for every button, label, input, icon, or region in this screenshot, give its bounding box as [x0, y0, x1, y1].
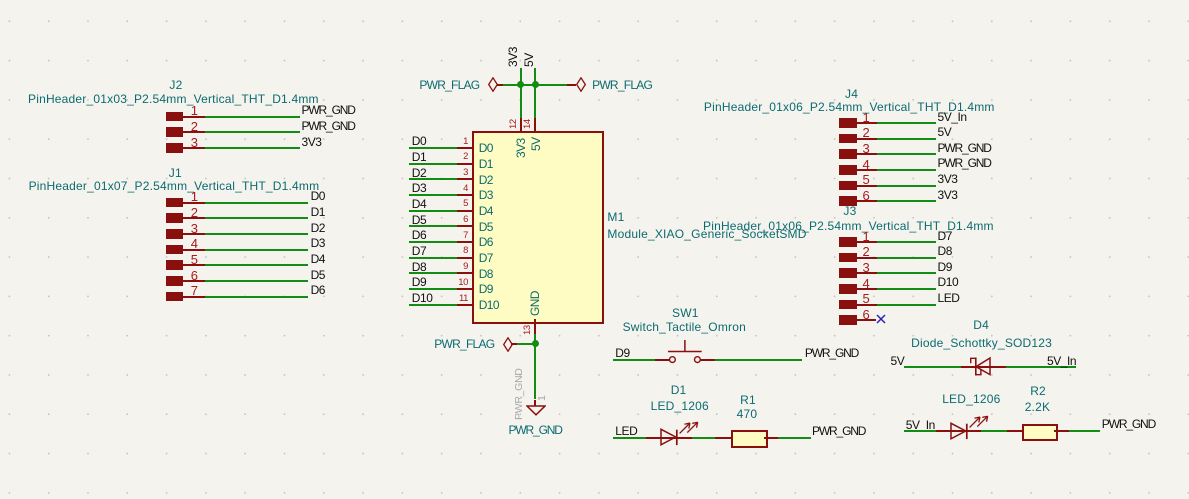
J4 pin 5 line: [857, 185, 878, 187]
SW1 value Switch_Tactile_Omron: [623, 321, 746, 333]
net label PWR_GND (J4 pin 3): [938, 142, 991, 154]
M1 pin 8 wire (net D7): [409, 257, 457, 259]
net label D7 (M1 pin 8): [412, 245, 426, 257]
M1 pin name D8: [479, 268, 493, 280]
net label D6 (M1 pin 7): [412, 229, 426, 241]
J3 pad 2: [839, 253, 856, 263]
module M1 body: [472, 131, 604, 324]
net label D1 (J1 pin 2): [311, 206, 325, 218]
power flag PF2 text: [592, 79, 652, 91]
M1 pin 10 line: [457, 288, 473, 290]
J1 pin 5 wire: [205, 264, 309, 266]
J1 pad 3: [166, 229, 183, 239]
M1 pin 7 wire (net D6): [409, 241, 457, 243]
J4 pad 4: [839, 165, 856, 175]
J1 pin 1 line: [183, 202, 205, 204]
J2 pin 1 wire: [205, 116, 300, 118]
net label D5 (M1 pin 6): [412, 214, 426, 226]
net label D5 (J1 pin 6): [311, 269, 325, 281]
M1 pin number 9: [463, 262, 468, 272]
M1 pin name D9: [479, 283, 493, 295]
M1 pin 1 wire (net D0): [409, 147, 457, 149]
J1 pad 7: [166, 292, 183, 302]
wire D2 internal: [951, 430, 981, 432]
net label D3 (J1 pin 4): [311, 237, 325, 249]
J1 reference designator: [169, 167, 182, 179]
J3 pin 3 line: [857, 272, 878, 274]
J4 pin 2 line: [857, 138, 878, 140]
net label PWR_GND (R1 right): [812, 425, 865, 437]
wire LED to D1: [613, 437, 646, 439]
J1 pin 4 line: [183, 249, 205, 251]
J3 pin 4 line: [857, 288, 878, 290]
J2 pin number 3: [191, 136, 198, 149]
J3 pin number 6: [863, 308, 870, 321]
J1 pin number 1: [191, 190, 198, 203]
J2 pin 1 line: [183, 116, 205, 118]
net label D7 (J3 pin 1): [938, 230, 952, 242]
net label PWR_GND (J2 pin 1): [302, 104, 355, 116]
M1 pin name 3V3 (vertical): [515, 139, 527, 159]
J2 pin number 2: [191, 120, 198, 133]
net label D1 (M1 pin 2): [412, 151, 426, 163]
J1 pin 5 line: [183, 264, 205, 266]
resistor R2 body: [1022, 424, 1059, 442]
J4 pad 1: [839, 118, 856, 128]
SW1 pin 2 line: [700, 359, 715, 361]
net label PWR_GND (J4 pin 4): [938, 157, 991, 169]
net label PWR_GND (SW1 right): [805, 347, 858, 359]
J3 value PinHeader_01x06: [703, 220, 994, 232]
J3 pin 3 wire: [877, 272, 936, 274]
net label D9 (SW1 left): [615, 347, 629, 359]
M1 pin 4 line: [457, 194, 473, 196]
M1 pin 14 line: [534, 118, 536, 132]
J3 pad 1: [839, 237, 856, 247]
J3 pin number 4: [863, 277, 870, 290]
M1 pin 2 line: [457, 163, 473, 165]
J3 pad 3: [839, 268, 856, 278]
wire 5V junction to PF2: [535, 84, 567, 86]
wire R2 to PWR_GND: [1069, 430, 1101, 432]
J1 pin number 6: [191, 269, 198, 282]
net label D10 (M1 pin 11): [412, 292, 433, 304]
net label 5V (D4 left): [891, 355, 905, 367]
R1 pin 2 line: [764, 437, 778, 439]
M1 pin 9 wire (net D8): [409, 272, 457, 274]
J4 pin 1 line: [857, 122, 878, 124]
J3 pin number 3: [863, 261, 870, 274]
M1 pin number 2: [463, 152, 468, 162]
junction at 3V3: [517, 81, 524, 88]
J2 pin number 1: [191, 104, 198, 117]
net label D10 (J3 pin 4): [938, 276, 959, 288]
wire pin13 to junction: [534, 334, 536, 344]
net label D0 (J1 pin 1): [311, 190, 325, 202]
M1 pin number 14: [523, 120, 533, 130]
net label D4 (J1 pin 5): [311, 253, 325, 265]
J2 pad 2: [166, 127, 183, 137]
J4 pin number 5: [863, 173, 870, 186]
diode D4 symbol: [967, 356, 993, 378]
net label D6 (J1 pin 7): [311, 284, 325, 296]
J1 pin 1 wire: [205, 202, 309, 204]
net label D3 (M1 pin 4): [412, 182, 426, 194]
M1 pin name D4: [479, 205, 493, 217]
M1 pin number 4: [463, 184, 468, 194]
J4 pad 3: [839, 149, 856, 159]
net label D9 (M1 pin 10): [412, 276, 426, 288]
resistor R1 value 470: [737, 408, 758, 420]
resistor R2 reference: [1030, 385, 1046, 397]
J2 pad 1: [166, 112, 183, 122]
M1 pin number 6: [463, 215, 468, 225]
M1 pin name D1: [479, 158, 493, 170]
power flag PF1 text: [419, 79, 479, 91]
M1 pin name GND (vertical): [529, 292, 541, 317]
M1 value Module_XIAO_Generic_SocketSMD: [607, 228, 806, 240]
J4 pin number 1: [863, 111, 870, 124]
J1 pin number 2: [191, 206, 198, 219]
LED D2 symbol: [949, 413, 991, 441]
net label D0 (M1 pin 1): [412, 135, 426, 147]
D2 pin 1 line: [936, 430, 951, 432]
J4 pin 4 line: [857, 169, 878, 171]
wire 3V3 vertical: [520, 68, 522, 118]
LED D1 symbol: [659, 419, 701, 447]
M1 pin 11 wire (net D10): [409, 304, 457, 306]
J1 pad 6: [166, 276, 183, 286]
J1 pin 2 wire: [205, 217, 309, 219]
R2 pin 2 line: [1054, 430, 1069, 432]
wire 5V_In to D2: [904, 430, 936, 432]
net label PWR_GND (J2 pin 2): [302, 120, 355, 132]
M1 pin 3 line: [457, 178, 473, 180]
net label D2 (J1 pin 3): [311, 222, 325, 234]
M1 pin number 12: [509, 120, 519, 130]
ground symbol PWR_GND triangle: [526, 405, 546, 416]
J4 pin 1 wire: [877, 122, 936, 124]
J1 value PinHeader_01x07: [29, 180, 320, 192]
M1 pin number 1: [463, 137, 468, 147]
M1 pin name D10: [479, 299, 499, 311]
D4 value Diode_Schottky_SOD123: [911, 337, 1052, 349]
SW1 pin 1 line: [655, 359, 669, 361]
J4 value PinHeader_01x06: [704, 101, 995, 113]
wire D4 internal: [976, 366, 1006, 368]
M1 pin name D5: [479, 221, 493, 233]
M1 pin 2 wire (net D1): [409, 163, 457, 165]
power symbol PWR_GND text: [509, 424, 562, 436]
M1 pin 5 line: [457, 210, 473, 212]
J3 pad 4: [839, 284, 856, 294]
J4 pad 6: [839, 196, 856, 206]
J4 pin number 3: [863, 142, 870, 155]
J4 pin 6 wire: [877, 200, 936, 202]
wire D1 to R1: [692, 437, 716, 439]
J2 value PinHeader_01x03: [28, 93, 319, 105]
J1 pin 3 line: [183, 233, 205, 235]
M1 pin number 8: [463, 246, 468, 256]
wire R1 to PWR_GND: [778, 437, 811, 439]
diode D4 reference: [973, 319, 989, 331]
J1 pad 4: [166, 245, 183, 255]
J3 pad 5: [839, 300, 856, 310]
J1 pin 6 wire: [205, 280, 309, 282]
J4 pin number 6: [863, 189, 870, 202]
M1 pin 12 line: [520, 118, 522, 132]
J1 pad 1: [166, 198, 183, 208]
net label 3V3 (J4 pin 5): [938, 173, 958, 185]
junction at GND: [532, 340, 539, 347]
net label 5V (J4 pin 2): [938, 126, 952, 138]
power flag PF3 text: [434, 338, 494, 350]
net label D9 (J3 pin 3): [938, 261, 952, 273]
M1 pin 7 line: [457, 241, 473, 243]
J4 pin number 2: [863, 126, 870, 139]
J4 pad 2: [839, 134, 856, 144]
power flag PF2 diamond: [576, 77, 586, 92]
M1 pin name D7: [479, 252, 493, 264]
J4 pin 6 line: [857, 200, 878, 202]
R1 pin 1 line: [715, 437, 730, 439]
wire 5V to D4: [904, 366, 961, 368]
J1 pin number 3: [191, 222, 198, 235]
J3 pin 1 line: [857, 241, 878, 243]
J3 reference designator: [843, 205, 856, 217]
J1 pad 2: [166, 213, 183, 223]
J1 pad 5: [166, 260, 183, 270]
J1 pin 4 wire: [205, 249, 309, 251]
J1 pin number 5: [191, 253, 198, 266]
wire junction to PWR_GND symbol: [534, 344, 536, 400]
junction at 5V: [532, 81, 539, 88]
J2 pin 3 line: [183, 147, 205, 149]
wire SW1 to PWR_GND: [715, 359, 802, 361]
wire D9 to SW1: [613, 359, 655, 361]
PF2 pin line: [567, 84, 576, 86]
J4 pin 3 wire: [877, 153, 936, 155]
M1 pin name 5V (vertical): [530, 138, 542, 151]
J4 pad 5: [839, 181, 856, 191]
wire 5V vertical: [534, 68, 536, 118]
M1 pin 1 line: [457, 147, 473, 149]
wire D4 to 5V_In: [1006, 366, 1076, 368]
M1 pin 10 wire (net D9): [409, 288, 457, 290]
M1 pin 13 line: [534, 319, 536, 333]
J1 pin number 4: [191, 237, 198, 250]
wire D2 to R2: [981, 430, 1007, 432]
M1 pin number 13: [523, 325, 533, 335]
net label 3V3 (J2 pin 3): [302, 136, 322, 148]
J1 pin 3 wire: [205, 233, 309, 235]
wire 3V3 junction to 5V junction: [520, 84, 535, 86]
power flag PF1 diamond: [488, 77, 498, 92]
M1 pin 5 wire (net D4): [409, 210, 457, 212]
net label 3V3 (J4 pin 6): [938, 189, 958, 201]
M1 pin 8 line: [457, 257, 473, 259]
net label 5V (vertical): [523, 53, 535, 67]
PF1 pin line: [497, 84, 504, 86]
M1 pin number 10: [458, 278, 468, 288]
resistor R1 reference: [740, 394, 756, 406]
J3 pin 5 line: [857, 304, 878, 306]
net label LED (D1 left): [615, 425, 637, 437]
J3 pad 6: [839, 315, 856, 325]
J3 pin 6 line: [857, 319, 877, 321]
J1 pin 7 wire: [205, 296, 309, 298]
R2 pin 1 line: [1007, 430, 1022, 432]
J2 pad 3: [166, 143, 183, 153]
net label LED (J3 pin 5): [938, 292, 960, 304]
J4 pin 5 wire: [877, 185, 936, 187]
J4 pin number 4: [863, 158, 870, 171]
M1 pin number 3: [463, 168, 468, 178]
M1 pin 6 wire (net D5): [409, 225, 457, 227]
J4 pin 2 wire: [877, 138, 936, 140]
net label D8 (J3 pin 2): [938, 245, 952, 257]
D1 value LED_1206: [651, 400, 709, 412]
J2 pin 2 line: [183, 131, 205, 133]
M1 pin name D3: [479, 189, 493, 201]
switch SW1 symbol: [666, 338, 704, 364]
J3 pin number 5: [863, 292, 870, 305]
D4 pin 1 line: [961, 366, 976, 368]
M1 pin 11 line: [457, 304, 473, 306]
wire PF1 to 3V3 junction: [503, 84, 520, 86]
J3 pin 2 wire: [877, 257, 936, 259]
M1 pin 4 wire (net D3): [409, 194, 457, 196]
no-connect X on J3 pin 6: [876, 314, 886, 324]
M1 pin number 11: [459, 294, 468, 304]
J2 pin 2 wire: [205, 131, 300, 133]
net label D4 (M1 pin 5): [412, 198, 426, 210]
net label 5V_In (J4 pin 1): [938, 111, 967, 123]
J2 reference designator: [169, 79, 182, 91]
M1 pin number 7: [463, 231, 468, 241]
J3 pin number 1: [863, 230, 870, 243]
PWR_GND symbol pin: [534, 400, 536, 407]
J1 pin 6 line: [183, 280, 205, 282]
M1 pin 6 line: [457, 225, 473, 227]
net label 5V_In (D4 right): [1047, 355, 1076, 367]
J3 pin 4 wire: [877, 288, 936, 290]
net label PWR_GND (R2 right): [1102, 418, 1155, 430]
J3 pin 5 wire: [877, 304, 936, 306]
net label 5V_In (D2 left): [906, 419, 935, 431]
J4 reference designator: [845, 88, 858, 100]
net label D8 (M1 pin 9): [412, 261, 426, 273]
PF3 pin line: [511, 343, 517, 345]
hidden pin text PWR_GND (gray): [514, 368, 525, 420]
net label 3V3 (vertical): [507, 47, 519, 67]
LED D1 reference: [671, 384, 687, 396]
J3 pin number 2: [863, 245, 870, 258]
J4 pin 4 wire: [877, 169, 936, 171]
wire PF3 to junction: [517, 343, 535, 345]
J2 pin 3 wire: [205, 147, 300, 149]
hidden pin number 1 (gray): [537, 395, 548, 401]
M1 pin 9 line: [457, 272, 473, 274]
J1 pin 7 line: [183, 296, 205, 298]
M1 pin name D2: [479, 174, 493, 186]
J3 pin 1 wire: [877, 241, 936, 243]
power flag PF3 diamond: [503, 337, 513, 352]
M1 reference designator: [607, 211, 624, 223]
D1 pin 1 line: [646, 437, 661, 439]
resistor R1 body: [731, 430, 768, 448]
M1 pin name D0: [479, 142, 493, 154]
J3 pin 2 line: [857, 257, 878, 259]
M1 pin number 5: [463, 199, 468, 209]
wire D1 internal: [661, 437, 692, 439]
J4 pin 3 line: [857, 153, 878, 155]
resistor R2 value 2.2K: [1025, 401, 1051, 413]
M1 pin 3 wire (net D2): [409, 178, 457, 180]
J1 pin 2 line: [183, 217, 205, 219]
net label D2 (M1 pin 3): [412, 167, 426, 179]
switch SW1 reference: [672, 307, 699, 319]
J1 pin number 7: [191, 284, 198, 297]
LED D2 value LED_1206: [942, 393, 1000, 405]
M1 pin name D6: [479, 236, 493, 248]
